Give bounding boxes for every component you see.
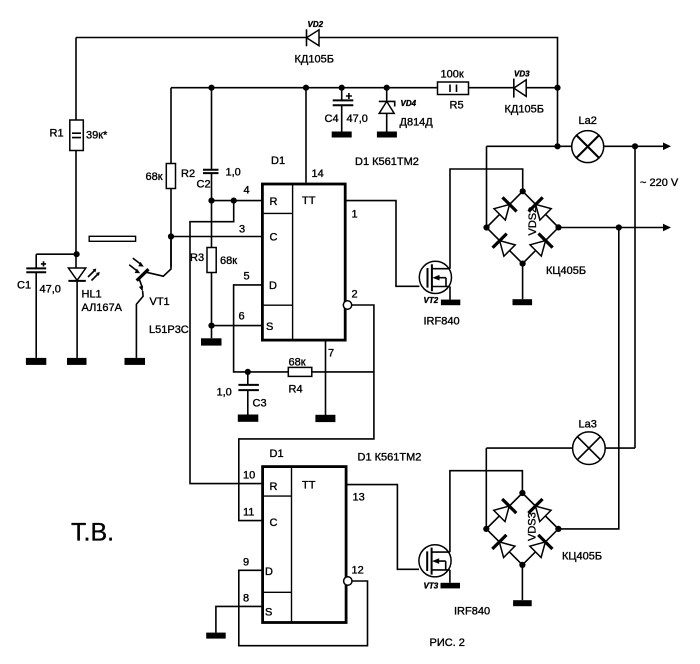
svg-text:3: 3 [239, 224, 245, 236]
diode VD2 [295, 20, 334, 66]
svg-text:47,0: 47,0 [347, 113, 368, 125]
svg-text:VT1: VT1 [150, 296, 170, 308]
svg-text:D: D [269, 280, 277, 292]
svg-text:C4: C4 [325, 113, 339, 125]
wire pin14 supply lead [305, 88, 307, 183]
junction VDS2 left vertex [483, 224, 489, 230]
arrow 220V upper line [663, 143, 671, 151]
capacitor C1 47,0 [17, 254, 77, 358]
junction VDS3 left vertex [483, 526, 489, 532]
svg-text:D1: D1 [270, 448, 284, 460]
svg-text:РИС. 2: РИС. 2 [430, 637, 465, 649]
junction VD3 to top rail vertical [554, 85, 560, 91]
svg-text:R3: R3 [190, 252, 204, 264]
svg-text:C: C [270, 517, 278, 529]
wire VT2 drain to bridge VDS2 top vertex [450, 169, 523, 269]
zener diode VD4 Д814Д [379, 88, 434, 132]
diode VDS3 bottom-left [492, 535, 516, 559]
svg-text:C1: C1 [17, 280, 31, 292]
junction 220V lower line to VDS3 vertical [616, 224, 622, 230]
flip-flop U D1.2 lower K561TM2 [263, 448, 347, 623]
svg-text:S: S [265, 607, 272, 619]
wire pin3 C-input line [171, 236, 262, 238]
wire pin2 inverted output to lower FF pin11 C input [239, 305, 374, 521]
LED HL1 АЛ167А [68, 268, 122, 358]
svg-text:1,0: 1,0 [226, 167, 241, 179]
capacitor C2 1,0 [197, 88, 241, 201]
ground bar at VT3 source [441, 583, 461, 589]
junction VDS2 bottom vertex [520, 261, 526, 267]
diode VDS3 left-top [492, 499, 516, 523]
transistor VT3 IRF840 MOSFET [419, 545, 490, 618]
svg-text:VD2: VD2 [308, 20, 324, 29]
diode VD3 [505, 70, 544, 116]
wire pin6 S-input line [212, 325, 263, 327]
svg-text:IRF840: IRF840 [454, 606, 490, 618]
junction R2/VT1 collector C-input node [168, 233, 174, 239]
svg-text:La2: La2 [579, 115, 597, 127]
svg-text:R2: R2 [181, 168, 195, 180]
ground below C4 [332, 132, 352, 138]
svg-text:S: S [266, 321, 273, 333]
wire pin12 inverted output to pin9 D input [239, 570, 368, 645]
svg-text:4: 4 [244, 185, 250, 197]
ground below HL1 [67, 358, 87, 365]
ground below pin8 [206, 633, 226, 639]
lamp La2 [572, 115, 604, 163]
bridge rectifier VDS3 КЦ405Б [486, 493, 602, 565]
svg-text:АЛ167А: АЛ167А [82, 302, 123, 314]
svg-text:TT: TT [302, 195, 316, 207]
svg-text:14: 14 [312, 168, 324, 180]
junction top rail vertical to La2 line [554, 143, 560, 149]
svg-text:D: D [265, 566, 273, 578]
svg-text:5: 5 [244, 271, 250, 283]
diode VDS2 right-top [529, 197, 553, 221]
svg-text:7: 7 [328, 348, 334, 360]
svg-text:R: R [270, 196, 278, 208]
svg-text:L51P3C: L51P3C [149, 324, 189, 336]
junction VDS2 top vertex [520, 188, 526, 194]
junction C1/HL1 node [74, 251, 80, 257]
wire vertical from 220V node down to bridge VDS3 right vertex [558, 228, 618, 529]
resistor R5 100к [438, 69, 469, 112]
ground below C3 [238, 415, 258, 422]
svg-text:11: 11 [243, 507, 254, 519]
ground below bridge VDS3 [513, 600, 532, 606]
svg-text:~ 220 V: ~ 220 V [640, 177, 679, 189]
flip-flop U D1.1 upper K561TM2 [262, 155, 345, 340]
ground below C1 [26, 358, 46, 365]
wire bridge VDS3 left vertex up to La3 line [486, 448, 573, 529]
resistor R2 68к [146, 88, 196, 267]
svg-text:IRF840: IRF840 [424, 316, 460, 328]
svg-text:R1: R1 [50, 128, 64, 140]
diode VDS2 bottom-right [529, 233, 553, 257]
wire VT3 drain to bridge VDS3 top vertex [450, 471, 523, 552]
junction R-input to lower FF feed [231, 198, 237, 204]
ground below pin7 [315, 415, 335, 422]
lamp La3 [573, 419, 606, 465]
ground below VT1 [125, 358, 146, 365]
resistor R3 68к [190, 201, 237, 339]
svg-text:VDS2: VDS2 [527, 207, 539, 236]
junction C3 top R4/D node [245, 369, 251, 375]
wire top rail from R1 top through VD2 to right vertical down to La2 line [76, 38, 558, 147]
wire vertical from La2 node down to La3 [634, 146, 636, 448]
svg-text:La3: La3 [579, 419, 597, 431]
diode VDS2 left-top [493, 197, 517, 221]
svg-text:2: 2 [352, 289, 358, 301]
resistor R1 39к* [50, 38, 109, 269]
arrow 220V lower line [663, 224, 671, 232]
bridge rectifier VDS2 КЦ405Б [487, 191, 587, 277]
wire 220V lower line from bridge VDS2 right vertex [559, 227, 665, 229]
junction C2 bottom R-input node [208, 198, 214, 204]
wire pin5 D-input line to R4/C3 node [234, 285, 289, 372]
svg-text:68к: 68к [146, 171, 163, 183]
svg-text:68к: 68к [289, 357, 306, 369]
svg-text:8: 8 [243, 593, 249, 605]
svg-text:КЦ405Б: КЦ405Б [546, 265, 586, 277]
wire pin13 output to VT3 gate [346, 485, 419, 570]
diode VDS3 right-top [528, 499, 552, 523]
wire supply rail [171, 87, 558, 89]
svg-text:R5: R5 [450, 100, 464, 112]
wire pin7 ground lead [325, 342, 327, 416]
wire pin4 R-input line [212, 200, 263, 202]
svg-text:13: 13 [353, 492, 365, 504]
wire bridge VDS2 left vertex up to La2 line [487, 146, 572, 227]
svg-text:D1: D1 [271, 155, 285, 167]
phototransistor VT1 L51P3C [129, 237, 189, 358]
inversion bubble pin 12 [344, 577, 352, 585]
junction pin14 on supply rail [303, 85, 309, 91]
ground below R3 [201, 338, 222, 345]
ground below VD4 [377, 132, 397, 138]
svg-text:КЦ405Б: КЦ405Б [562, 551, 602, 563]
svg-text:10: 10 [243, 470, 255, 482]
svg-text:TT: TT [302, 480, 316, 492]
wire La3 right side to vertical [605, 447, 635, 449]
diode VDS3 bottom-right [528, 535, 552, 559]
capacitor C3 1,0 [217, 372, 267, 415]
diode VDS2 bottom-left [493, 234, 517, 258]
junction VD4 on supply rail [384, 85, 390, 91]
resistor R4 68к [288, 357, 374, 396]
svg-text:Т.В.: Т.В. [71, 519, 114, 547]
optical shield bar between HL1 and VT1 [89, 236, 135, 241]
inversion bubble pin 2 [343, 301, 351, 309]
svg-text:6: 6 [239, 311, 245, 323]
svg-text:HL1: HL1 [82, 289, 102, 301]
junction VDS3 top vertex [519, 490, 525, 496]
svg-text:D1 К561ТМ2: D1 К561ТМ2 [358, 452, 422, 464]
svg-text:VD4: VD4 [401, 99, 417, 108]
capacitor C4 47,0 [325, 88, 368, 132]
transistor VT2 IRF840 MOSFET [419, 261, 459, 327]
junction R3 bottom S-input node [208, 323, 214, 329]
svg-text:39к*: 39к* [86, 130, 108, 142]
junction C4 on supply rail [339, 85, 345, 91]
svg-text:47,0: 47,0 [40, 284, 61, 296]
ground bar at VT2 source [441, 300, 460, 306]
svg-text:100к: 100к [441, 69, 464, 81]
wire La2 to 220V line arrow [604, 145, 664, 147]
wire bridge VDS3 bottom vertex to ground [521, 565, 523, 600]
junction VDS2 right vertex [555, 224, 561, 230]
svg-text:VDS3: VDS3 [527, 512, 539, 541]
wire bridge VDS2 bottom vertex to ground [522, 264, 524, 300]
junction VDS3 right vertex [555, 526, 561, 532]
wire pin1 output to VT2 gate [346, 201, 419, 287]
svg-text:VT3: VT3 [424, 582, 439, 591]
junction La2 line to La3 vertical [632, 143, 638, 149]
svg-text:КД105Б: КД105Б [295, 54, 334, 66]
svg-text:C3: C3 [253, 398, 267, 410]
svg-text:VD3: VD3 [514, 70, 530, 79]
svg-text:12: 12 [352, 565, 364, 577]
wire from node to lower FF pin10 R input [190, 201, 262, 484]
svg-text:R4: R4 [289, 384, 303, 396]
svg-text:КД105Б: КД105Б [505, 104, 544, 116]
svg-text:1: 1 [352, 209, 358, 221]
svg-text:Д814Д: Д814Д [400, 117, 434, 129]
ground below bridge VDS2 [513, 299, 533, 305]
junction C2 top on supply rail [208, 85, 214, 91]
svg-text:C: C [270, 232, 278, 244]
wire pin8 to ground [216, 606, 262, 632]
svg-text:1,0: 1,0 [217, 387, 232, 399]
svg-text:68к: 68к [220, 255, 237, 267]
svg-text:D1 К561ТМ2: D1 К561ТМ2 [355, 156, 419, 168]
svg-text:9: 9 [243, 557, 249, 569]
svg-text:C2: C2 [197, 179, 211, 191]
svg-text:R: R [270, 481, 278, 493]
junction VDS3 bottom vertex [519, 562, 525, 568]
svg-text:VT2: VT2 [424, 296, 439, 305]
